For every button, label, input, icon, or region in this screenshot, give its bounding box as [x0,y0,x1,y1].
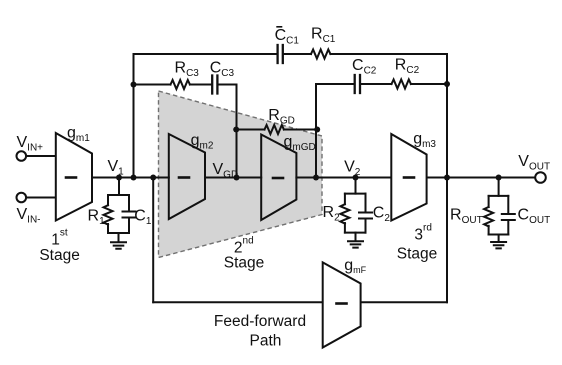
svg-text:Stage: Stage [397,246,438,263]
svg-text:Stage: Stage [224,255,265,272]
svg-text:Path: Path [250,333,282,350]
svg-text:Feed-forward: Feed-forward [214,313,306,330]
svg-text:Stage: Stage [39,247,80,264]
